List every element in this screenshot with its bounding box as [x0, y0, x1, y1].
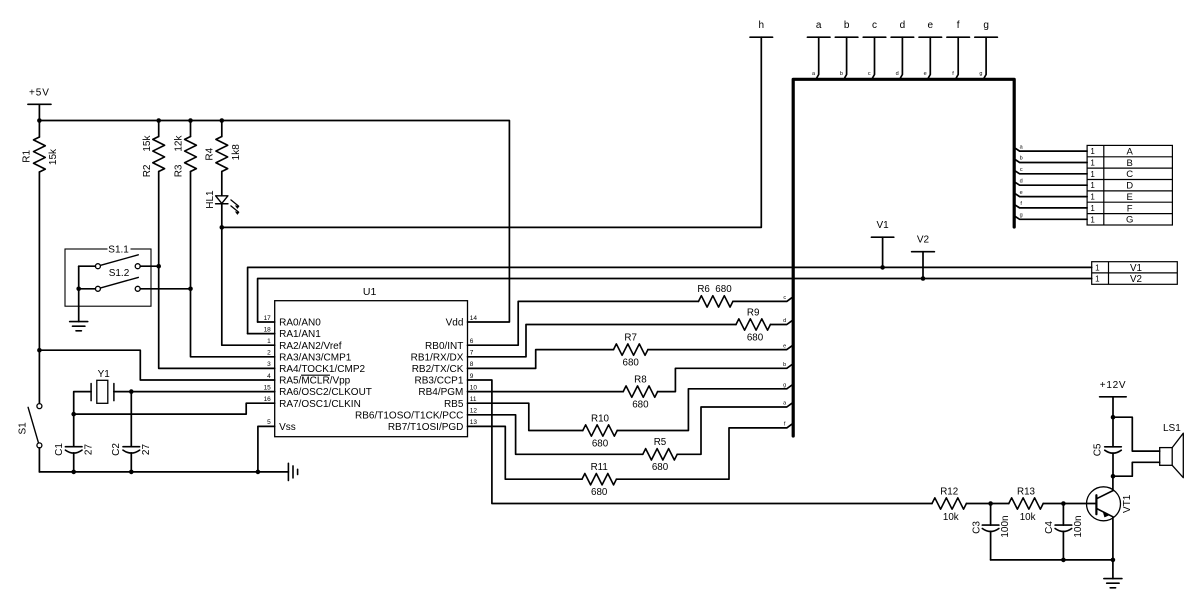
U1 pin 14 Vdd	[446, 315, 478, 329]
node R1/S1/MCLR junction	[37, 348, 42, 353]
terminal a	[807, 36, 830, 38]
U1 pin 12 RB6/T1OSO/T1CK/PCC	[355, 408, 477, 422]
U1 pin 5 Vss	[267, 419, 296, 433]
svg-text:e: e	[924, 71, 927, 77]
node C2/OSC2 junction	[129, 389, 134, 394]
terminal b	[835, 36, 858, 38]
ground at rail	[287, 463, 289, 480]
wire C2 branch	[130, 392, 132, 447]
svg-text:1: 1	[267, 338, 271, 345]
wire RB5 to R10	[468, 403, 583, 430]
svg-text:c: c	[783, 295, 786, 301]
svg-text:RB4/PGM: RB4/PGM	[418, 387, 463, 398]
svg-text:S1.1: S1.1	[108, 244, 129, 255]
power +12V	[1100, 380, 1127, 397]
wire R6 to bus net c	[733, 298, 792, 302]
switch S1	[18, 404, 42, 448]
svg-text:R2: R2	[142, 164, 153, 177]
svg-text:R3: R3	[173, 164, 184, 177]
svg-text:e: e	[783, 343, 786, 349]
wire R7 to bus net e	[648, 346, 792, 350]
U1 pin 3 RA4/TOCK1/CMP2	[267, 361, 365, 375]
svg-text:680: 680	[652, 462, 669, 473]
svg-text:RA1/AN1: RA1/AN1	[279, 329, 321, 340]
U1 pin 1 RA2/AN2/Vref	[267, 338, 342, 352]
wire RB6 to R5	[468, 415, 643, 455]
node C3 junction	[988, 501, 993, 506]
resistor R8	[623, 374, 657, 410]
U1 pin 2 RA3/AN3/CMP1	[267, 350, 352, 364]
svg-text:e: e	[1020, 190, 1023, 196]
switch S1.2	[79, 268, 191, 291]
node emitter/rail junction	[1111, 558, 1116, 563]
capacitor C5	[1093, 443, 1122, 456]
svg-text:1: 1	[1090, 170, 1095, 179]
svg-text:V1: V1	[876, 220, 889, 231]
U1 pin 16 RA7/OSC1/CLKIN	[264, 396, 361, 410]
wire switch common to ground	[78, 266, 80, 321]
svg-text:14: 14	[470, 315, 478, 322]
node +12V/speaker junction	[1111, 415, 1116, 420]
crystal Y1	[91, 369, 114, 403]
svg-text:e: e	[928, 20, 934, 31]
svg-text:R12: R12	[940, 487, 958, 498]
wire bus to connector G	[1016, 217, 1088, 220]
wire V2 to pin 17	[258, 321, 275, 323]
svg-text:10k: 10k	[943, 512, 959, 523]
svg-text:RB1/RX/DX: RB1/RX/DX	[411, 352, 464, 363]
svg-text:12k: 12k	[174, 135, 185, 152]
svg-text:LS1: LS1	[1163, 423, 1181, 434]
wire R9 to bus net d	[770, 321, 792, 325]
svg-text:1: 1	[1090, 147, 1095, 156]
svg-text:RB5: RB5	[444, 399, 464, 410]
wire +12V to C5	[1112, 397, 1114, 447]
capacitor C4	[1044, 504, 1084, 538]
svg-text:C1: C1	[54, 443, 65, 456]
svg-text:5: 5	[267, 419, 271, 426]
svg-text:G: G	[1126, 215, 1133, 226]
wire terminal f to bus	[956, 37, 959, 79]
terminal V1	[871, 220, 893, 267]
svg-text:E: E	[1127, 192, 1133, 203]
svg-text:1: 1	[1090, 158, 1095, 167]
svg-text:C2: C2	[111, 443, 122, 456]
svg-text:g: g	[1020, 213, 1023, 219]
U1 pin 17 RA0/AN0	[264, 315, 322, 329]
node +5V/R3 junction	[188, 118, 193, 123]
node C4/rail junction	[1061, 558, 1066, 563]
svg-text:8: 8	[470, 361, 474, 368]
svg-text:B: B	[1127, 158, 1133, 169]
svg-text:d: d	[783, 318, 786, 324]
resistor R5	[643, 437, 677, 473]
wire OSC1 to RA7	[74, 403, 275, 414]
power +5V	[28, 87, 51, 104]
node +5V/R2 junction	[156, 118, 161, 123]
svg-text:12: 12	[470, 408, 478, 415]
wire bus to connector D	[1016, 183, 1088, 186]
svg-text:100n: 100n	[1000, 515, 1011, 537]
wire R5 to bus net a	[677, 403, 792, 454]
svg-text:RA7/OSC1/CLKIN: RA7/OSC1/CLKIN	[279, 399, 361, 410]
wire R1 to MCLR and S1	[38, 172, 40, 404]
svg-text:1: 1	[1095, 275, 1100, 284]
svg-text:f: f	[957, 20, 960, 31]
U1 pin 10 RB4/PGM	[418, 384, 477, 398]
wire R12 to R13	[966, 503, 1008, 505]
wire C2 to ground rail	[130, 453, 132, 472]
svg-text:S1: S1	[18, 422, 29, 435]
wire bus to connector C	[1016, 171, 1088, 174]
wire RB2 to R7	[468, 350, 614, 369]
svg-text:680: 680	[591, 487, 608, 498]
svg-text:C5: C5	[1093, 443, 1104, 456]
node LED/h junction	[220, 225, 225, 230]
svg-text:c: c	[868, 71, 871, 77]
wire RB1 to R9	[468, 325, 737, 357]
wire audio ground rail	[991, 559, 1113, 561]
svg-text:V1: V1	[1130, 263, 1142, 274]
svg-text:c: c	[1020, 167, 1023, 173]
terminal h	[750, 36, 773, 38]
terminal e	[919, 36, 942, 38]
svg-text:HL1: HL1	[205, 190, 216, 209]
node C1/rail junction	[71, 470, 76, 475]
svg-text:16: 16	[264, 396, 272, 403]
wire OSC1 net crystal to pin 16	[74, 392, 91, 447]
svg-text:+5V: +5V	[29, 87, 50, 98]
svg-text:RB0/INT: RB0/INT	[425, 341, 463, 352]
svg-text:4: 4	[267, 373, 271, 380]
resistor R4	[204, 121, 241, 172]
svg-text:680: 680	[592, 438, 609, 449]
svg-text:R8: R8	[634, 374, 647, 385]
U1 pin 6 RB0/INT	[425, 338, 474, 352]
svg-text:27: 27	[141, 444, 152, 456]
svg-text:b: b	[1020, 156, 1023, 162]
wire terminal b to bus	[844, 37, 847, 79]
wire VT1 emitter to ground	[1112, 517, 1114, 579]
U1 pin 15 RA6/OSC2/CLKOUT	[264, 384, 372, 398]
wire R11 to bus net f	[616, 424, 792, 479]
svg-text:100n: 100n	[1073, 515, 1084, 537]
wire R8 to bus net b	[658, 365, 792, 392]
svg-text:10k: 10k	[1020, 512, 1036, 523]
svg-text:D: D	[1126, 181, 1133, 192]
wire LED node to terminal h	[222, 37, 762, 227]
svg-text:a: a	[816, 20, 822, 31]
wire ground rail	[39, 471, 288, 473]
svg-text:RA3/AN3/CMP1: RA3/AN3/CMP1	[279, 352, 352, 363]
svg-text:V2: V2	[1130, 274, 1142, 285]
wire V1 net	[248, 267, 1092, 333]
capacitor C2	[111, 443, 152, 456]
resistor R1	[22, 121, 59, 173]
node R2/S1.1 junction	[156, 264, 161, 269]
svg-text:F: F	[1127, 203, 1133, 214]
terminal f	[947, 36, 970, 38]
svg-text:R4: R4	[204, 147, 215, 160]
wire R2 to pin 3 RA4	[159, 172, 275, 369]
node +5V/R1 junction	[37, 118, 42, 123]
wire terminal c to bus	[872, 37, 875, 79]
svg-text:RB2/TX/CK: RB2/TX/CK	[412, 364, 464, 375]
svg-text:R6 680: R6 680	[697, 284, 732, 295]
svg-text:C4: C4	[1044, 521, 1055, 534]
svg-text:RA0/AN0: RA0/AN0	[279, 318, 321, 329]
wire terminal a to bus	[816, 37, 819, 79]
wire C4 to ground rail	[1062, 531, 1064, 560]
U1 pin 13 RB7/T1OSI/PGD	[388, 419, 478, 433]
svg-text:RA2/AN2/Vref: RA2/AN2/Vref	[279, 341, 342, 352]
svg-text:d: d	[896, 71, 899, 77]
svg-text:RB3/CCP1: RB3/CCP1	[414, 376, 463, 387]
node C4 junction	[1061, 501, 1066, 506]
wire RB7 to R11	[468, 426, 583, 479]
svg-text:3: 3	[267, 361, 271, 368]
svg-text:S1.2: S1.2	[109, 268, 130, 279]
node S1.1/S1.2 common junction	[76, 287, 81, 292]
wire R3 to pin 2 RA3	[191, 172, 275, 357]
U1 pin 8 RB2/TX/CK	[412, 361, 474, 375]
wire C3 to ground rail	[990, 531, 992, 560]
svg-text:6: 6	[470, 338, 474, 345]
svg-text:g: g	[983, 20, 989, 31]
wire RB0 to R6	[468, 301, 699, 345]
svg-text:1: 1	[1090, 193, 1095, 202]
node Vss/rail junction	[256, 470, 261, 475]
svg-text:1: 1	[1090, 181, 1095, 190]
terminal V2	[912, 235, 935, 279]
svg-text:g: g	[979, 71, 982, 77]
wire RB3 CCP1 to R12	[468, 380, 933, 504]
node collector junction	[1111, 474, 1116, 479]
svg-text:R11: R11	[591, 462, 608, 473]
wire terminal e to bus	[928, 37, 931, 79]
svg-text:C: C	[1126, 169, 1133, 180]
svg-text:15: 15	[264, 384, 272, 391]
resistor R3	[173, 121, 196, 178]
node V1 terminal junction	[880, 265, 885, 270]
wire C5 to collector node	[1112, 453, 1114, 476]
wire OSC2 net crystal to pin 15	[114, 391, 275, 393]
wire speaker top terminal	[1113, 417, 1160, 451]
capacitor C1	[54, 443, 94, 456]
wire +5V rail to Vdd	[39, 104, 509, 322]
bus segment	[793, 79, 1014, 436]
wire R4 to LED	[221, 172, 223, 196]
svg-text:18: 18	[264, 326, 272, 333]
resistor R9	[736, 307, 770, 343]
svg-text:1: 1	[1095, 263, 1100, 272]
svg-text:R9: R9	[747, 307, 760, 318]
U1 pin 9 RB3/CCP1	[414, 373, 473, 387]
U1 pin 4 RA5/MCLR/Vpp	[267, 373, 351, 387]
svg-text:9: 9	[470, 373, 474, 380]
svg-text:RA5/MCLR/Vpp: RA5/MCLR/Vpp	[279, 376, 351, 387]
resistor R10	[583, 413, 617, 449]
ground at switch block	[70, 321, 88, 323]
svg-text:R10: R10	[591, 413, 610, 424]
svg-text:d: d	[900, 20, 906, 31]
svg-text:A: A	[1127, 147, 1134, 158]
svg-text:15k: 15k	[142, 135, 153, 152]
wire S1 to ground rail	[38, 448, 40, 472]
wire VT1 collector	[1112, 476, 1114, 490]
svg-text:Y1: Y1	[98, 369, 111, 380]
LED HL1	[205, 190, 239, 214]
svg-text:17: 17	[264, 315, 272, 322]
wire MCLR net to pin 4	[39, 350, 274, 380]
wire Vss to rail	[258, 426, 275, 472]
svg-text:b: b	[840, 71, 843, 77]
svg-text:b: b	[844, 20, 850, 31]
svg-text:d: d	[1020, 178, 1023, 184]
wire bus to connector F	[1016, 205, 1088, 208]
switch block S1.1/S1.2 box	[65, 249, 151, 306]
connector block A-G	[1087, 145, 1172, 225]
svg-text:RA4/TOCK1/CMP2: RA4/TOCK1/CMP2	[279, 364, 365, 375]
svg-text:R1: R1	[22, 149, 33, 162]
svg-text:1: 1	[1090, 204, 1095, 213]
op-amp U1 body	[275, 301, 468, 437]
resistor R7	[614, 332, 648, 368]
resistor R11	[582, 462, 616, 498]
svg-text:Vdd: Vdd	[446, 318, 464, 329]
svg-text:15k: 15k	[48, 148, 59, 165]
transistor VT1	[1087, 487, 1134, 521]
svg-text:10: 10	[470, 384, 478, 391]
svg-text:R13: R13	[1017, 487, 1036, 498]
svg-text:VT1: VT1	[1122, 494, 1133, 513]
svg-text:g: g	[783, 383, 786, 389]
svg-text:680: 680	[623, 357, 640, 368]
wire R10 to bus net g	[617, 385, 792, 431]
node C2/rail junction	[129, 470, 134, 475]
svg-text:1: 1	[1090, 215, 1095, 224]
svg-text:U1: U1	[363, 286, 377, 298]
resistor R2	[142, 121, 165, 178]
svg-text:1k8: 1k8	[231, 144, 242, 161]
svg-text:c: c	[872, 20, 877, 31]
U1 pin 11 RB5	[444, 396, 477, 410]
wire LED cathode to RA2 pin 1	[222, 204, 275, 346]
svg-text:7: 7	[470, 350, 474, 357]
switch S1.1	[79, 244, 159, 269]
svg-text:13: 13	[470, 419, 478, 426]
wire C1 to ground rail	[73, 453, 75, 472]
svg-text:V2: V2	[917, 235, 930, 246]
svg-text:h: h	[759, 20, 765, 31]
speaker LS1	[1160, 423, 1184, 478]
terminal c	[863, 36, 886, 38]
wire bus to connector A	[1016, 149, 1088, 152]
node V2 terminal junction	[921, 276, 926, 281]
svg-text:11: 11	[470, 396, 477, 403]
resistor R12	[932, 487, 966, 523]
wire bus to connector E	[1016, 194, 1088, 197]
ground at VT1 emitter	[1104, 578, 1122, 580]
wire RB4 to R8	[468, 391, 624, 393]
wire terminal g to bus	[984, 37, 987, 79]
U1 pin 18 RA1/AN1	[264, 326, 322, 340]
wire V1 to pin 18	[248, 333, 275, 335]
node C1/OSC1 junction	[71, 412, 76, 417]
node +5V/R4 junction	[220, 118, 225, 123]
wire terminal d to bus	[900, 37, 903, 79]
svg-text:27: 27	[83, 444, 94, 456]
resistor R6	[697, 284, 733, 307]
svg-text:RB6/T1OSO/T1CK/PCC: RB6/T1OSO/T1CK/PCC	[355, 410, 463, 421]
svg-text:b: b	[783, 362, 786, 368]
svg-text:C3: C3	[972, 521, 983, 534]
terminal d	[891, 36, 914, 38]
capacitor C3	[972, 504, 1012, 538]
wire V2 net	[258, 279, 1092, 323]
svg-text:Vss: Vss	[279, 422, 296, 433]
svg-text:+12V: +12V	[1100, 380, 1126, 391]
svg-text:2: 2	[267, 350, 271, 357]
svg-text:RB7/T1OSI/PGD: RB7/T1OSI/PGD	[388, 422, 464, 433]
svg-text:R5: R5	[654, 437, 667, 448]
U1 pin 7 RB1/RX/DX	[411, 350, 474, 364]
wire R13 to VT1 base	[1043, 503, 1096, 505]
svg-text:R7: R7	[624, 332, 637, 343]
svg-text:RA6/OSC2/CLKOUT: RA6/OSC2/CLKOUT	[279, 387, 372, 398]
svg-text:680: 680	[747, 332, 764, 343]
resistor R13	[1009, 487, 1043, 523]
svg-text:680: 680	[632, 399, 649, 410]
connector block V1/V2	[1092, 262, 1178, 285]
wire bus to connector B	[1016, 160, 1088, 163]
terminal g	[975, 36, 998, 38]
wire speaker bottom terminal	[1113, 462, 1160, 476]
node R3/S1.2 junction	[188, 287, 193, 292]
